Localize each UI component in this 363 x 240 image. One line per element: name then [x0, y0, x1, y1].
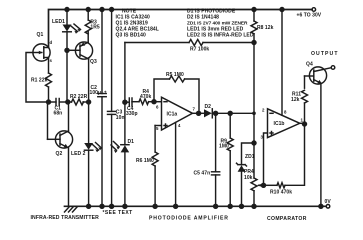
terminal +V — [312, 8, 316, 12]
svg-text:12k: 12k — [291, 97, 300, 103]
resistor R11 — [302, 76, 308, 124]
resistor R8 — [251, 10, 257, 43]
wire C1 to node — [59, 101, 68, 103]
svg-text:10n: 10n — [116, 115, 125, 121]
svg-text:OUTPUT: OUTPUT — [311, 51, 339, 57]
svg-text:R1 22k: R1 22k — [31, 78, 48, 84]
wire node to C1 — [49, 101, 57, 103]
svg-text:Q4: Q4 — [306, 62, 313, 68]
transistor Q3 — [67, 42, 93, 59]
node R7/R8 — [252, 41, 256, 45]
resistor R6 — [152, 152, 158, 166]
wire R7 to node — [203, 42, 254, 44]
wire R2 right — [83, 101, 89, 103]
node LED2 rail — [87, 204, 91, 208]
transistor Q2 — [48, 131, 73, 148]
wire R6 to rail — [154, 166, 156, 206]
node D1 rail — [123, 204, 127, 208]
capacitor C2 — [98, 10, 106, 207]
wire R10 left — [264, 184, 278, 186]
svg-text:IC1b: IC1b — [274, 121, 285, 127]
diode D2 — [199, 109, 254, 118]
wire IC1a plus to R6 — [154, 126, 156, 153]
node top rail pin8 — [280, 8, 284, 12]
svg-text:LED 2: LED 2 — [71, 151, 86, 157]
LED LED1 — [63, 10, 81, 51]
wire Q3 collector to LED2 — [88, 102, 90, 143]
node top rail LED1 — [65, 8, 69, 12]
node top rail R3 — [86, 8, 90, 12]
LED LED2 — [84, 143, 102, 207]
node C3 rail — [110, 204, 114, 208]
wire R4 to IC1a — [149, 101, 162, 103]
svg-text:D2: D2 — [205, 104, 212, 110]
svg-text:+: + — [104, 90, 107, 95]
op-amp IC1b — [268, 10, 305, 138]
svg-text:INFRA-RED TRANSMITTER: INFRA-RED TRANSMITTER — [31, 215, 100, 221]
resistor R2 — [72, 99, 84, 105]
svg-text:D1: D1 — [128, 139, 135, 145]
node top rail R8 — [252, 8, 256, 12]
photodiode D1 — [111, 142, 129, 207]
svg-text:PHOTODIODE AMPLIFIER: PHOTODIODE AMPLIFIER — [149, 216, 229, 222]
node crossover — [253, 112, 255, 114]
wire R7 run — [125, 42, 189, 44]
wire reference chain — [253, 43, 255, 144]
svg-text:IC1a: IC1a — [167, 112, 178, 118]
capacitor C3 — [108, 10, 116, 207]
node R9 rail — [228, 204, 232, 208]
transistor Q4 — [309, 67, 331, 84]
node ZD1 rail — [240, 204, 244, 208]
svg-text:C5 47n: C5 47n — [194, 170, 211, 176]
node C5 tap — [214, 111, 218, 115]
resistor R3 — [85, 10, 91, 43]
hidden join — [66, 101, 69, 103]
node D1/C4 — [123, 100, 127, 104]
node R4/R5 — [152, 100, 156, 104]
wire Q1 gate loop — [26, 53, 48, 103]
wire D1 bias from R7 — [124, 43, 126, 103]
wire zener jog — [242, 143, 255, 165]
svg-text:470k: 470k — [140, 94, 151, 100]
node R9 tap — [228, 111, 232, 115]
wire Q2 collector up — [68, 102, 70, 131]
zener ZD1 — [237, 163, 247, 206]
svg-text:330p: 330p — [126, 111, 138, 117]
hidden join2 — [67, 101, 70, 103]
wire Q3 collector down — [88, 59, 90, 102]
capacitor C5 — [212, 113, 220, 206]
wire LED1 node down — [66, 50, 68, 102]
svg-text:ZD1: ZD1 — [245, 154, 255, 160]
op-amp IC1a — [155, 97, 199, 206]
wire R1 to node — [48, 87, 50, 102]
node wiper — [262, 183, 266, 187]
wire bottom 0V rail — [65, 205, 327, 207]
svg-text:0V: 0V — [325, 199, 332, 205]
svg-text:+6 TO 30V: +6 TO 30V — [297, 13, 322, 19]
svg-text:Q3: Q3 — [90, 59, 97, 65]
svg-text:Q3 IS BD140: Q3 IS BD140 — [116, 33, 146, 39]
ground — [65, 207, 78, 212]
wire node to D1 — [124, 102, 126, 145]
node top rail C3 — [110, 8, 114, 12]
resistor R5 — [170, 76, 185, 82]
svg-text:100μ: 100μ — [90, 90, 102, 96]
node LED1/Q3 base — [65, 48, 69, 52]
resistor R1 — [46, 73, 52, 87]
resistor R4 — [139, 99, 149, 105]
wire top supply rail — [49, 10, 313, 48]
node top rail C2 — [100, 8, 104, 12]
note text block — [116, 9, 254, 39]
node Q4 emitter rail — [319, 204, 323, 208]
svg-text:R2 22R: R2 22R — [70, 94, 88, 100]
svg-text:R7 100k: R7 100k — [190, 47, 209, 53]
wire R10 right leg — [285, 124, 305, 185]
node zener tap — [252, 141, 256, 145]
wire R2 left — [68, 101, 72, 103]
node R6 rail — [153, 204, 157, 208]
node PR4 rail — [252, 204, 256, 208]
wire Q4 emitter down — [320, 83, 322, 206]
svg-text:1M0: 1M0 — [219, 144, 229, 150]
capacitor C1 — [56, 99, 59, 106]
wire Q2 emitter down — [68, 147, 70, 206]
terminal 0V — [326, 205, 330, 209]
node C1/R2/LED1/Q2 — [66, 100, 70, 104]
wire R5 right leg — [185, 79, 199, 113]
svg-text:Q1: Q1 — [37, 32, 44, 38]
svg-text:R6 1M0: R6 1M0 — [136, 158, 154, 164]
svg-text:LED1: LED1 — [52, 19, 65, 25]
svg-text:R8 12k: R8 12k — [257, 25, 274, 31]
wire Q2 base up — [47, 102, 49, 139]
svg-text:COMPARATOR: COMPARATOR — [267, 216, 307, 222]
svg-text:1R5: 1R5 — [90, 25, 99, 31]
node IC1b out — [303, 122, 307, 126]
resistor R7 — [189, 40, 203, 46]
svg-text:*SEE TEXT: *SEE TEXT — [103, 210, 133, 216]
preset PR4 — [251, 143, 264, 206]
svg-text:LED2 IS IS INFRA-RED LED: LED2 IS IS INFRA-RED LED — [187, 33, 254, 39]
svg-text:68n: 68n — [54, 111, 63, 117]
wire R5 left leg — [154, 79, 170, 102]
wire R11 to Q4 base — [305, 75, 314, 77]
transistor Q1 — [33, 44, 50, 61]
svg-text:D2 IS 1N4148: D2 IS 1N4148 — [187, 15, 219, 21]
svg-text:Q2: Q2 — [56, 151, 63, 157]
node C5 rail — [214, 204, 218, 208]
node pin4 rail — [174, 204, 178, 208]
resistor R9 — [227, 113, 233, 206]
terminal OUTPUT — [331, 66, 335, 70]
node IC1a out — [197, 111, 201, 115]
svg-text:R5 1M0: R5 1M0 — [166, 72, 184, 78]
resistor R10 — [277, 183, 285, 188]
svg-text:R10 470k: R10 470k — [270, 190, 292, 196]
wire Q1 source to R1 — [48, 58, 50, 74]
svg-text:d: d — [50, 40, 53, 45]
wire wiper to pin3 — [264, 133, 268, 185]
capacitor C4 — [125, 98, 139, 106]
node R2/Q3 collector/LED2 — [87, 100, 91, 104]
svg-text:10k: 10k — [244, 175, 253, 181]
node C2 rail — [100, 204, 104, 208]
node R1/C1/gate — [47, 100, 51, 104]
